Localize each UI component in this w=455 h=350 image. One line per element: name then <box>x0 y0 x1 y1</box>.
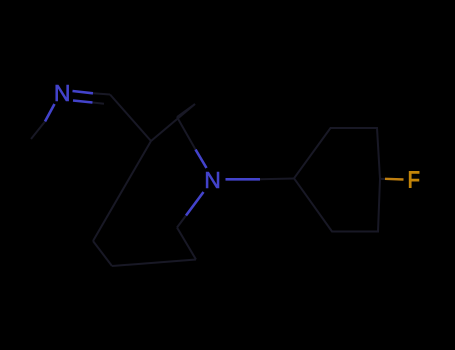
wire C3 up to apex <box>151 104 195 141</box>
wire P to Q <box>93 241 112 266</box>
wire C4' to F orange half <box>385 178 404 181</box>
wire R to S <box>177 228 196 260</box>
wire N1 to C6 dark half <box>31 122 45 140</box>
wire N' to C1' dark half <box>260 178 294 181</box>
wire link down to N' dark half <box>177 117 196 150</box>
wire N1 to C6 blue half <box>45 104 55 122</box>
wire S to N' dark half <box>177 216 186 228</box>
svg-text:F: F <box>408 166 420 193</box>
wire N' to C1' blue half <box>226 178 261 181</box>
N1=C2 double bond main line dark half <box>93 93 110 94</box>
N1=C2 double bond inner line blue half <box>73 101 93 103</box>
wire C4' to F dark half <box>380 178 387 180</box>
N1=C2 double bond main line blue half <box>73 91 94 93</box>
wire long diagonal C3 to P <box>93 141 151 241</box>
wire S to N' blue half <box>186 192 204 216</box>
svg-text:N: N <box>54 80 71 106</box>
wire apex short link back <box>177 104 195 117</box>
benzene ring <box>294 128 380 232</box>
wire Q to R bottom <box>112 260 196 267</box>
svg-text:N: N <box>204 167 221 193</box>
N1=C2 double bond inner line dark half <box>93 103 105 104</box>
wire link down to N' blue half <box>196 150 207 169</box>
wire C2 to C3 junction <box>110 95 151 142</box>
